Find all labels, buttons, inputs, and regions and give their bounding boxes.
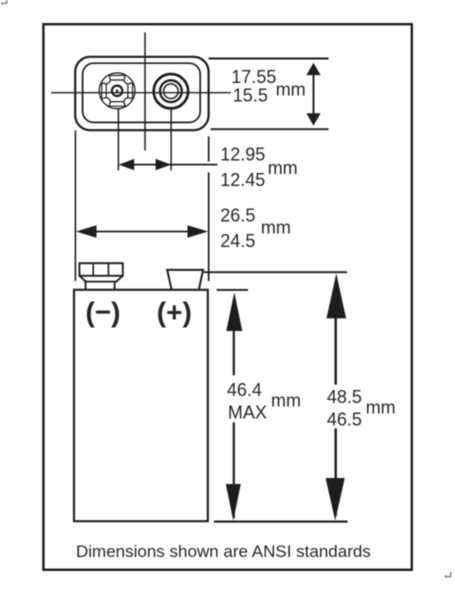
horizontal centerline xyxy=(51,92,231,94)
extension line top of 48.5 xyxy=(204,271,347,273)
return mark top-left xyxy=(1,0,7,5)
drawing frame xyxy=(43,24,411,570)
dimension arrow 46.4 MAX xyxy=(226,292,243,521)
svg-text:mm: mm xyxy=(276,80,306,100)
svg-text:17.55: 17.55 xyxy=(231,67,276,87)
extension line bottom of 17.55 xyxy=(211,128,329,130)
positive terminal top view (male snap) xyxy=(154,74,188,108)
bracket tick for 12.95 dimension xyxy=(208,136,210,281)
svg-text:12.95: 12.95 xyxy=(220,145,265,165)
dimension arrow 26.5 width xyxy=(76,225,208,238)
battery top view outer outline xyxy=(75,57,208,130)
extension line from positive terminal xyxy=(170,109,172,171)
svg-text:48.5: 48.5 xyxy=(327,387,362,407)
positive terminal side view (trapezoid) xyxy=(167,270,203,290)
battery top view inner outline xyxy=(83,63,201,122)
svg-text:mm: mm xyxy=(271,391,301,411)
extension line from negative terminal xyxy=(117,109,119,171)
svg-text:MAX: MAX xyxy=(228,403,267,423)
vertical centerline xyxy=(144,32,146,150)
svg-text:26.5: 26.5 xyxy=(220,206,255,226)
svg-text:24.5: 24.5 xyxy=(220,231,255,251)
svg-text:15.5: 15.5 xyxy=(233,86,268,106)
baseline under arrows xyxy=(214,521,348,523)
tick top of 46.4 xyxy=(217,289,248,291)
return mark bottom-right xyxy=(444,572,450,579)
svg-text:mm: mm xyxy=(366,398,396,418)
left extension line xyxy=(74,130,76,281)
extension line top of 17.55 xyxy=(209,58,329,60)
svg-text:Dimensions shown are ANSI stan: Dimensions shown are ANSI standards xyxy=(76,542,371,561)
dimension arrow 48.5 xyxy=(326,273,347,520)
negative terminal side view (crown) xyxy=(79,263,122,290)
svg-text:46.5: 46.5 xyxy=(327,410,362,430)
svg-text:mm: mm xyxy=(268,158,298,178)
svg-text:(+): (+) xyxy=(157,297,192,328)
negative terminal top view (female snap) xyxy=(99,73,135,109)
dimension line 12.95/12.45 xyxy=(119,159,218,170)
svg-text:(−): (−) xyxy=(86,297,121,328)
svg-text:mm: mm xyxy=(261,218,291,238)
svg-text:12.45: 12.45 xyxy=(220,170,265,190)
battery front view body xyxy=(74,290,208,521)
svg-text:46.4: 46.4 xyxy=(227,380,262,400)
vertical double arrow 17.55 xyxy=(306,63,320,126)
